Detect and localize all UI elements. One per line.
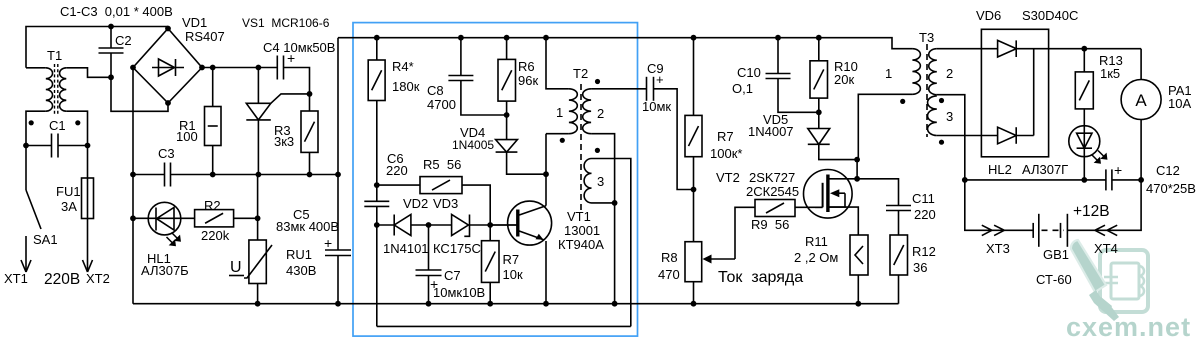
svg-text:R7: R7 xyxy=(717,129,734,144)
wire left negative rail xyxy=(132,68,134,304)
wire R10 bottom lead xyxy=(818,98,820,128)
wire R7-10k bottom lead xyxy=(489,282,491,303)
svg-text:10А: 10А xyxy=(1168,96,1191,111)
wire VT1 emitter lead xyxy=(545,241,547,304)
svg-text:VS1 MCR106-6: VS1 MCR106-6 xyxy=(242,16,330,30)
svg-text:10мк10В: 10мк10В xyxy=(433,285,485,300)
wire VT2 source to R11 xyxy=(828,207,858,235)
wire R8 bottom lead xyxy=(693,282,695,304)
wire C9 to R7-100k bottom node xyxy=(654,89,694,190)
wire R1 bottom lead xyxy=(212,146,214,175)
wire VD1 AC input loop to C2 junction xyxy=(111,77,168,111)
junction C9 / R7-100k / R8 xyxy=(691,187,697,193)
wire R7-100k top lead xyxy=(693,38,695,116)
junction C8 top xyxy=(458,35,464,41)
resistor R7 (100к*) xyxy=(685,115,702,156)
wire C5 line upper (box rail to C5 top) xyxy=(337,38,339,250)
resistor R4* xyxy=(368,60,385,101)
svg-text:1N4101: 1N4101 xyxy=(383,241,429,256)
wire T1 secondary bottom lead down xyxy=(66,111,87,145)
wire C2 top lead xyxy=(110,27,112,49)
wire R13 top lead xyxy=(1083,49,1085,72)
svg-text:R6: R6 xyxy=(518,59,535,74)
wire C6 top lead xyxy=(376,185,378,201)
transformer T2 core xyxy=(580,84,582,210)
svg-text:220В: 220В xyxy=(44,271,80,288)
wire VD2 to VD3 xyxy=(411,224,452,226)
svg-text:3А: 3А xyxy=(61,199,77,214)
junction R2 / RU1 line xyxy=(255,215,261,221)
thyristor VS1 xyxy=(246,94,309,120)
wire output to XT3 xyxy=(965,180,1033,230)
svg-text:470*25В: 470*25В xyxy=(1146,181,1196,196)
phase dot T1 primary xyxy=(29,120,34,125)
wire output plus to C12 xyxy=(965,179,1106,181)
resistor R9 xyxy=(755,200,795,217)
wire SA1 upper lead xyxy=(25,146,27,191)
svg-text:1N4005: 1N4005 xyxy=(452,138,494,152)
wire RU1 bottom lead xyxy=(257,284,259,304)
wire bottom common rail xyxy=(133,303,899,305)
svg-text:470: 470 xyxy=(658,267,680,282)
junction VT2 drain xyxy=(854,176,860,182)
wire C8 bottom lead to VD4 node xyxy=(461,81,507,116)
svg-text:U: U xyxy=(230,259,242,276)
svg-text:cxem.net: cxem.net xyxy=(1066,312,1191,342)
capacitor C10 xyxy=(766,74,791,79)
wire R3 top lead xyxy=(309,94,311,111)
svg-text:КТ940А: КТ940А xyxy=(558,237,604,252)
resistor R1 xyxy=(205,107,222,146)
svg-text:XT4: XT4 xyxy=(1094,241,1118,256)
resistor R12 xyxy=(890,235,908,275)
svg-text:VT2: VT2 xyxy=(716,170,740,185)
junction C1 left xyxy=(23,143,29,149)
svg-text:КС175С: КС175С xyxy=(433,241,481,256)
svg-text:VD6: VD6 xyxy=(976,8,1001,23)
wire C10 top lead xyxy=(777,38,779,74)
svg-text:R4*: R4* xyxy=(392,59,414,74)
wire C8 top lead xyxy=(460,38,462,76)
svg-text:+: + xyxy=(656,72,664,87)
junction C7 top xyxy=(426,222,432,228)
junction C1 right xyxy=(85,143,91,149)
svg-text:S30D40C: S30D40C xyxy=(1022,8,1078,23)
svg-text:C10: C10 xyxy=(737,65,761,80)
svg-text:СТ-60: СТ-60 xyxy=(1036,272,1072,287)
wire drain to C11 xyxy=(857,179,898,206)
wire T2 winding1 top lead xyxy=(546,38,569,89)
wire T2 winding3 top lead to feedback loop xyxy=(592,159,631,327)
svg-text:13001: 13001 xyxy=(564,223,600,238)
svg-text:96к: 96к xyxy=(518,73,538,88)
svg-text:А: А xyxy=(1135,91,1147,110)
capacitor C3 xyxy=(165,163,171,187)
wire C3 rail right segment xyxy=(171,174,339,176)
wire C12 to PA1 node xyxy=(1112,179,1141,181)
junction R4 / C6 / R5 xyxy=(374,182,380,188)
svg-text:АЛ307Б: АЛ307Б xyxy=(141,263,189,278)
junction C5 / bottom rail xyxy=(335,301,341,307)
svg-text:АЛ307Г: АЛ307Г xyxy=(1022,162,1068,177)
svg-text:3: 3 xyxy=(946,109,953,124)
svg-text:XT2: XT2 xyxy=(86,271,110,286)
svg-text:T3: T3 xyxy=(919,30,934,45)
svg-text:VD1: VD1 xyxy=(182,15,207,30)
svg-text:100к*: 100к* xyxy=(710,146,742,161)
wire FU1 to XT2 xyxy=(87,219,89,273)
wire C5 bottom lead xyxy=(337,256,339,304)
svg-text:T1: T1 xyxy=(47,48,62,63)
wire C6 junction to VD2 cathode xyxy=(377,224,394,226)
wire VD5 cathode to drain line xyxy=(819,144,857,159)
battery GB1 xyxy=(1033,214,1067,247)
svg-text:C1: C1 xyxy=(49,118,66,133)
wire T1 primary top lead xyxy=(26,67,46,69)
capacitor C9 (electrolytic) xyxy=(647,77,654,101)
wire T2 winding2 bottom lead down xyxy=(591,134,615,304)
svg-text:XT3: XT3 xyxy=(986,241,1010,256)
junction T2 return / bottom rail xyxy=(612,301,618,307)
wire VS1 cathode lead xyxy=(257,120,259,175)
svg-text:10мк: 10мк xyxy=(642,99,671,114)
junction R1 / C3 rail xyxy=(210,172,216,178)
transformer T1 core xyxy=(55,64,58,115)
transformer T3 winding 2 xyxy=(929,49,937,95)
phase dot T2 winding1 xyxy=(560,138,565,143)
junction C2 / T1 secondary / bridge AC xyxy=(108,74,114,80)
svg-text:+: + xyxy=(324,235,332,251)
svg-text:180к: 180к xyxy=(392,79,420,94)
phase dot T3 winding1 xyxy=(900,99,905,104)
svg-text:R5 56: R5 56 xyxy=(423,157,461,172)
svg-text:R9 56: R9 56 xyxy=(751,217,789,232)
wire PA1 bottom lead xyxy=(1140,120,1142,180)
wire C7 top lead xyxy=(428,225,430,270)
wire R11 bottom lead xyxy=(857,275,859,304)
svg-text:C12: C12 xyxy=(1156,163,1180,178)
wire VD6 cathodes tie xyxy=(1033,49,1035,136)
junction R4 top xyxy=(374,35,380,41)
terminal XT3 chevrons xyxy=(982,225,1005,235)
phase dot T2 winding2 xyxy=(595,79,600,84)
svg-text:10к: 10к xyxy=(503,267,523,282)
wire R12 bottom lead to rail end xyxy=(898,275,900,304)
transformer T1 primary winding xyxy=(46,68,53,111)
capacitor C11 xyxy=(886,206,911,211)
wire R13-HL2-C12 vertical xyxy=(1083,109,1085,180)
svg-text:VD2: VD2 xyxy=(403,196,428,211)
junction HL2 / C12 wire xyxy=(1081,177,1087,183)
wire drain node segment xyxy=(856,160,858,179)
bridge rectifier VD1 xyxy=(133,29,202,104)
svg-text:VD3: VD3 xyxy=(433,196,458,211)
junction left rail / C3 rail xyxy=(130,172,136,178)
diode VD6 upper xyxy=(981,40,1048,57)
wire R4 bottom lead to C6 xyxy=(376,101,378,186)
wire T2 winding3 bottom lead xyxy=(592,202,615,204)
MOSFET VT2 xyxy=(804,170,858,219)
junction R13 top xyxy=(1081,46,1087,52)
wire to FU1 xyxy=(87,146,89,179)
phase dot T3 winding3 xyxy=(939,140,944,145)
wire T3 winding2 top lead to VD6 xyxy=(937,48,982,50)
junction VD1 top corner xyxy=(165,26,171,32)
wire VT1 collector to T2 winding1 xyxy=(545,134,547,206)
junction T2 primary top xyxy=(543,35,549,41)
svg-text:+: + xyxy=(287,50,295,66)
resistor R7 (10к) xyxy=(482,241,500,283)
wire top rail from T1 primary to VD1 top xyxy=(26,27,168,68)
terminal XT1 arrow xyxy=(21,260,31,272)
svg-text:C3: C3 xyxy=(158,146,175,161)
svg-text:FU1: FU1 xyxy=(56,184,81,199)
junction VD4 / VT1 collector line xyxy=(543,171,549,177)
svg-text:GB1: GB1 xyxy=(1043,247,1069,262)
svg-text:2: 2 xyxy=(597,106,604,121)
wire R8 wiper to R9 xyxy=(735,207,755,259)
LED HL2 xyxy=(1069,126,1107,163)
wire C11 to R12 xyxy=(898,211,900,236)
wire VD4 cathode to collector line xyxy=(507,152,546,174)
resistor R10 xyxy=(810,61,828,98)
switch SA1 blade xyxy=(26,190,41,229)
svg-text:C1-C3 0,01 * 400В: C1-C3 0,01 * 400В xyxy=(60,4,173,19)
junction C2 top / top rail xyxy=(108,24,114,30)
wire R3 bottom lead xyxy=(309,152,311,174)
wire R4-C6 junction to R5 xyxy=(377,184,420,186)
wire R1 top lead xyxy=(212,68,214,107)
svg-text:HL2: HL2 xyxy=(988,162,1012,177)
resistor R2 xyxy=(195,210,234,227)
svg-text:C2: C2 xyxy=(115,33,132,48)
svg-text:1: 1 xyxy=(556,105,563,120)
wire T1 primary bottom lead down xyxy=(26,111,46,145)
transformer T2 winding 2 xyxy=(583,89,591,134)
wire T2 winding1 bottom lead xyxy=(546,133,569,135)
diode VD5 (1N4007) xyxy=(808,129,830,145)
svg-text:RS407: RS407 xyxy=(185,29,225,44)
wire C4 to gate corner xyxy=(284,68,310,94)
svg-text:C8: C8 xyxy=(427,83,444,98)
zener diode VD3 (КС175С) xyxy=(452,215,470,237)
wire T3 winding1 bottom lead down xyxy=(858,94,912,159)
svg-text:R7: R7 xyxy=(503,252,520,267)
potentiometer R8 (470) xyxy=(685,242,735,282)
junction C8 / R6-VD4 xyxy=(504,112,510,118)
svg-text:1: 1 xyxy=(885,66,892,81)
svg-text:4700: 4700 xyxy=(427,97,456,112)
cxem.net watermark logo xyxy=(1100,250,1148,312)
transformer T3 winding 1 xyxy=(912,49,920,95)
junction RU1 / bottom rail xyxy=(255,301,261,307)
capacitor C5 (electrolytic) xyxy=(325,250,351,256)
svg-text:VT1: VT1 xyxy=(567,209,591,224)
svg-text:T2: T2 xyxy=(573,66,588,81)
svg-text:Ток заряда: Ток заряда xyxy=(718,269,803,286)
wire battery plus to XT4 to PA1 node xyxy=(1067,180,1141,230)
junction T2 winding3 bottom xyxy=(612,200,618,206)
wire R4 top lead xyxy=(376,38,378,60)
junction R7-10k / bottom rail xyxy=(487,301,493,307)
wire C6 bottom lead down to feedback loop xyxy=(376,206,378,326)
diode VD4 (1N4005) xyxy=(496,140,518,153)
wire RU1 top lead xyxy=(257,175,259,241)
wire C2 bottom lead xyxy=(110,53,112,77)
phase dot T1 secondary xyxy=(75,120,80,125)
junction R6 top xyxy=(504,35,510,41)
transistor VT1 (13001 КТ940А) xyxy=(490,201,551,245)
phase dot T3 winding2 xyxy=(939,98,944,103)
capacitor C4 xyxy=(277,56,283,80)
svg-text:2 ,2 Ом: 2 ,2 Ом xyxy=(794,250,838,265)
wire feedback loop bottom xyxy=(377,325,631,327)
svg-text:SA1: SA1 xyxy=(33,232,58,247)
wire SA1 to XT1 xyxy=(25,236,27,272)
wire C1 right lead xyxy=(58,145,88,147)
transformer T2 winding 3 xyxy=(584,159,591,203)
capacitor C12 (electrolytic) xyxy=(1106,169,1112,190)
fuse FU1 xyxy=(82,178,94,219)
phase dot T2 winding3 xyxy=(595,148,600,153)
svg-text:36: 36 xyxy=(913,260,927,275)
junction VD5 / T3 winding1 line xyxy=(854,157,860,163)
svg-text:220: 220 xyxy=(386,163,408,178)
wire T1 secondary top lead to C2 junction xyxy=(66,68,111,78)
terminal XT4 chevrons xyxy=(1095,225,1117,235)
svg-text:R2: R2 xyxy=(204,198,221,213)
wire R6 bottom lead to VD4 xyxy=(506,101,508,140)
wire VD3 to VT1 base xyxy=(470,224,518,226)
junction VD1 bottom corner xyxy=(165,100,171,106)
junction R5 / R7 / base xyxy=(487,222,493,228)
wire C10 bottom jog to VD5 node xyxy=(778,79,819,113)
junction PA1 / C12 xyxy=(1138,177,1144,183)
wire R9 to VT2 gate xyxy=(795,206,823,208)
svg-text:220k: 220k xyxy=(201,228,230,243)
transformer T1 secondary winding xyxy=(60,68,67,111)
wire R6 top lead xyxy=(506,38,508,60)
junction C6 / VD2 wire xyxy=(374,222,380,228)
varistor RU1 xyxy=(244,240,272,284)
wire plus rail to C4 xyxy=(202,67,277,69)
junction R7-100k top xyxy=(691,35,697,41)
wire VS1 anode lead xyxy=(257,68,259,104)
capacitor C7 (electrolytic) xyxy=(416,270,442,276)
junction R8 / bottom rail xyxy=(691,301,697,307)
capacitor C6 xyxy=(364,201,389,206)
junction VT1 emitter / bottom rail xyxy=(543,301,549,307)
wire R10 top lead xyxy=(818,38,820,61)
svg-text:1N4007: 1N4007 xyxy=(748,124,794,139)
ammeter PA1 xyxy=(1121,80,1161,120)
wire C1 left lead xyxy=(26,145,52,147)
svg-text:100: 100 xyxy=(176,129,198,144)
svg-text:+12В: +12В xyxy=(1073,203,1110,220)
svg-text:220: 220 xyxy=(914,207,936,222)
junction VS1 cathode / C3 rail xyxy=(256,172,262,178)
diode VD6 lower xyxy=(981,127,1033,144)
transformer T2 winding 1 xyxy=(569,89,577,134)
svg-text:1к5: 1к5 xyxy=(1100,66,1120,81)
svg-text:О,1: О,1 xyxy=(732,81,753,96)
terminal XT2 arrow xyxy=(83,260,93,272)
transformer T3 winding 3 xyxy=(928,96,937,136)
svg-text:C7: C7 xyxy=(444,268,461,283)
junction R3 / C3 rail xyxy=(307,172,313,178)
wire T3 center tap down xyxy=(937,95,965,180)
svg-text:R12: R12 xyxy=(912,244,936,259)
svg-text:R8: R8 xyxy=(661,250,678,265)
junction VS1 gate / R3 top xyxy=(307,91,313,97)
wire C3 rail left segment xyxy=(133,174,165,176)
watermark pen xyxy=(1071,240,1119,321)
blue frame around oscillator section xyxy=(353,23,638,337)
junction VS1 anode xyxy=(256,65,262,71)
svg-text:83мк 400В: 83мк 400В xyxy=(276,219,339,234)
transformer T3 core xyxy=(926,44,928,137)
svg-text:2СК2545: 2СК2545 xyxy=(746,184,799,199)
dual diode VD6 box xyxy=(981,29,1048,157)
wire R2 to RU1 line xyxy=(234,217,258,219)
svg-text:RU1: RU1 xyxy=(286,247,312,262)
svg-text:C11: C11 xyxy=(912,191,935,206)
resistor R5 xyxy=(420,177,462,194)
svg-text:R11: R11 xyxy=(805,234,828,249)
junction VD1 left corner xyxy=(130,65,136,71)
junction C3 rail / C5 line xyxy=(335,172,341,178)
svg-text:3к3: 3к3 xyxy=(274,134,294,149)
capacitor C8 xyxy=(448,76,473,81)
resistor R3 xyxy=(301,111,318,152)
capacitor C1 xyxy=(52,134,59,158)
svg-text:+: + xyxy=(1114,162,1122,178)
resistor R6 xyxy=(498,59,516,101)
wire VD6 output rail xyxy=(1049,48,1142,50)
junction R1 top xyxy=(210,65,216,71)
wire box top rail to T3 primary xyxy=(338,38,912,49)
junction HL1 branch left xyxy=(130,215,136,221)
svg-text:XT1: XT1 xyxy=(4,271,28,286)
svg-text:3: 3 xyxy=(597,174,604,189)
resistor R11 xyxy=(850,235,868,275)
diode VD2 (1N4101, cathode left) xyxy=(394,215,411,236)
capacitor C2 xyxy=(99,48,124,53)
svg-text:C4 10мк50В: C4 10мк50В xyxy=(263,40,335,55)
wire R7-100k to R8 xyxy=(693,157,695,242)
svg-text:2SK727: 2SK727 xyxy=(749,170,795,185)
junction C10 top xyxy=(775,35,781,41)
wire PA1 top lead xyxy=(1140,49,1142,80)
wire R7-10k top lead xyxy=(489,225,491,241)
junction R10 top xyxy=(816,35,822,41)
junction VD1 right corner xyxy=(199,65,205,71)
junction center tap / output xyxy=(962,177,968,183)
wire R5 to VD3 junction xyxy=(462,185,490,225)
junction R10 / C10 / VD5 xyxy=(816,109,822,115)
resistor R13 xyxy=(1075,72,1093,109)
junction R11 / bottom rail xyxy=(855,301,861,307)
wire T3 winding3 bottom lead to VD6 xyxy=(937,135,982,137)
wire HL1 branch through LED xyxy=(133,217,195,219)
wire T2 winding2 top lead to C9 xyxy=(591,88,646,90)
svg-text:2: 2 xyxy=(946,66,953,81)
junction C7 / bottom rail xyxy=(426,301,432,307)
LED HL1 xyxy=(148,202,181,245)
wire C7 bottom lead xyxy=(428,276,430,304)
svg-text:430В: 430В xyxy=(286,263,316,278)
svg-text:20к: 20к xyxy=(834,72,854,87)
